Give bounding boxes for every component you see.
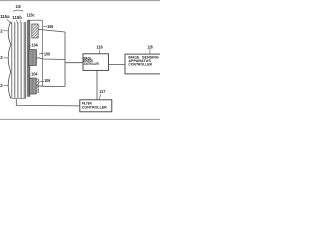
label 115b bbox=[12, 15, 22, 20]
collector top horizontal bbox=[27, 19, 42, 21]
top border line bbox=[0, 0, 160, 2]
label 115 bbox=[16, 4, 22, 9]
lens 102 arc 2 bbox=[8, 45, 11, 73]
svg-text:116: 116 bbox=[96, 45, 103, 50]
brace under 115 bbox=[14, 10, 24, 12]
leader 115b left bbox=[17, 20, 18, 24]
svg-text:2: 2 bbox=[0, 29, 3, 34]
wire bus to image sensor controller bbox=[65, 62, 83, 64]
filter strip beside lower sensor bbox=[36, 79, 38, 93]
label 104 upper bbox=[28, 42, 38, 47]
svg-text:106: 106 bbox=[47, 24, 53, 29]
label 106 middle bbox=[39, 51, 50, 56]
label 106 bottom bbox=[39, 78, 51, 83]
label 102 upper bbox=[0, 29, 7, 34]
svg-text:CONTROLLER: CONTROLLER bbox=[128, 62, 152, 66]
svg-text:CONTROLLER: CONTROLLER bbox=[82, 105, 107, 109]
svg-text:115a: 115a bbox=[0, 14, 10, 19]
label 102 lower bbox=[0, 83, 8, 88]
bus vertical bbox=[64, 32, 66, 86]
svg-text:104: 104 bbox=[32, 42, 39, 47]
svg-text:115: 115 bbox=[16, 4, 22, 9]
label 115a bbox=[0, 14, 10, 19]
svg-text:117: 117 bbox=[99, 89, 105, 94]
svg-text:2: 2 bbox=[0, 55, 3, 60]
wire from 104 lower to bus bbox=[37, 85, 66, 88]
leader 126 bbox=[149, 49, 151, 54]
label 126 bbox=[147, 45, 153, 50]
label 116 bbox=[96, 45, 103, 50]
lens barrel plate stack 115a bbox=[12, 22, 26, 99]
svg-text:104: 104 bbox=[31, 72, 38, 77]
filter 106 top hatched bbox=[32, 24, 38, 38]
label 117 bbox=[99, 89, 105, 94]
leader 115b right bbox=[19, 20, 22, 23]
plate 115b double wall bbox=[24, 22, 26, 98]
leader 116 bbox=[99, 50, 101, 54]
wire image sensor controller to filter controller bbox=[96, 70, 98, 99]
wire from 106 top to bus bbox=[38, 29, 65, 32]
svg-text:115b: 115b bbox=[12, 15, 22, 20]
svg-text:115c: 115c bbox=[27, 12, 35, 17]
leader 117 bbox=[99, 94, 101, 100]
label 106 top bbox=[43, 24, 54, 29]
leader 115a bbox=[7, 19, 12, 23]
svg-text:106: 106 bbox=[44, 78, 50, 83]
sensor 104 lower dark bbox=[30, 78, 37, 94]
sensor 104 upper dark bbox=[29, 50, 37, 66]
wire between controllers bbox=[109, 64, 126, 66]
box image sensor controller U116 bbox=[83, 54, 109, 71]
box image sensing apparatus controller U126 bbox=[125, 54, 166, 74]
collector vertical bbox=[41, 20, 43, 86]
svg-text:CONTROLLER: CONTROLLER bbox=[83, 62, 99, 66]
lens 102 arc 1 bbox=[8, 22, 11, 45]
wire from 104 upper to bus bbox=[37, 58, 65, 60]
svg-text:106: 106 bbox=[44, 51, 50, 56]
wire stack to filter controller bbox=[16, 99, 80, 106]
box filter controller U117 bbox=[80, 100, 112, 112]
label 115c bbox=[27, 12, 35, 17]
svg-text:126: 126 bbox=[147, 45, 153, 50]
dark strip 115c bbox=[27, 21, 30, 97]
svg-text:2: 2 bbox=[0, 83, 3, 88]
label 102 middle bbox=[0, 55, 7, 60]
lens 102 arc 3 bbox=[8, 72, 11, 99]
label 104 lower bbox=[28, 72, 38, 77]
bottom border line bbox=[0, 118, 160, 120]
